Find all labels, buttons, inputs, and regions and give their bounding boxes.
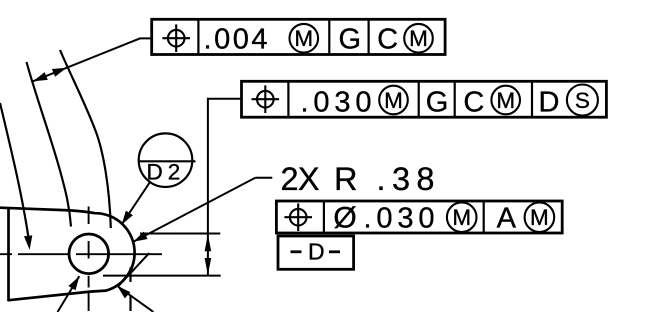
MMC modifier	[290, 24, 319, 53]
position symbol FCF3	[290, 209, 307, 226]
position symbol FCF2	[257, 91, 274, 108]
svg-text:C: C	[463, 87, 484, 119]
MMC modifier	[447, 202, 477, 232]
dashed datum target line on round surface	[129, 268, 131, 312]
dimension arrow down	[205, 258, 212, 275]
vertical centerline of hole	[88, 207, 90, 312]
extension line upper (hole top tangent)	[140, 233, 220, 235]
MMC modifier on C	[491, 86, 520, 115]
leader to hole edge from lower left	[58, 276, 80, 312]
RFS modifier on D	[567, 85, 598, 116]
arc C (phantom surface arc, right)	[60, 50, 111, 228]
feature control frame FCF3 (dia .030 M | A M)	[276, 201, 562, 233]
extension line lower (hole bottom tangent)	[103, 275, 221, 277]
svg-text:M: M	[384, 88, 403, 113]
svg-text:C: C	[377, 24, 398, 56]
MMC modifier on C	[404, 24, 433, 53]
feature control frame FCF1 (.004 M | G | C M)	[152, 19, 445, 54]
datum target circle D2	[139, 133, 193, 187]
datum target divider line	[138, 160, 196, 162]
svg-text:D: D	[308, 238, 325, 264]
leader 2 of 2X R .38 to lower arc	[118, 253, 149, 287]
leader 1 of 2X R .38 to upper arc	[133, 178, 255, 242]
leader from lower right to lower arc	[118, 287, 154, 313]
svg-text:D2: D2	[147, 160, 186, 185]
svg-text:D: D	[539, 87, 560, 119]
svg-text:.38: .38	[377, 161, 435, 197]
MMC modifier	[379, 86, 408, 115]
svg-text:M: M	[409, 26, 428, 51]
part outline: left vertical edge	[7, 208, 10, 301]
svg-text:S: S	[575, 88, 590, 113]
feature control frame FCF2 (.030 M | G | C M | D S)	[242, 81, 607, 117]
leader from FCF1 to arcs (double arrowheads)	[33, 38, 152, 81]
datum feature symbol -D- box	[278, 236, 354, 269]
arc B (phantom surface arc, middle)	[27, 62, 72, 227]
-D- dashes and letter	[291, 250, 302, 253]
leader from FCF2 down to dimension	[208, 99, 242, 275]
svg-text:M: M	[496, 88, 515, 113]
MMC modifier on A	[525, 202, 555, 232]
leader stub of 2X R .38	[255, 177, 272, 179]
svg-text:R: R	[334, 161, 357, 197]
svg-text:A: A	[497, 202, 517, 234]
svg-text:G: G	[339, 24, 362, 56]
horizontal centerline of hole	[0, 253, 162, 255]
arc A (phantom surface arc, left)	[0, 103, 29, 239]
dimension arrow up	[205, 234, 212, 251]
part outline: top edge and rounded end R.38	[0, 208, 135, 301]
svg-text:M: M	[530, 205, 549, 230]
svg-text:M: M	[294, 26, 313, 51]
datum target D2 leader	[122, 182, 150, 224]
svg-text:G: G	[426, 87, 449, 119]
svg-text:.004: .004	[204, 24, 268, 56]
svg-text:M: M	[452, 205, 471, 230]
svg-text:Ø: Ø	[333, 201, 356, 234]
svg-text:2X: 2X	[281, 161, 320, 197]
position symbol FCF1	[168, 30, 185, 47]
hole circle	[69, 234, 109, 274]
arrow on arc A pointing down at centerline	[24, 235, 32, 249]
